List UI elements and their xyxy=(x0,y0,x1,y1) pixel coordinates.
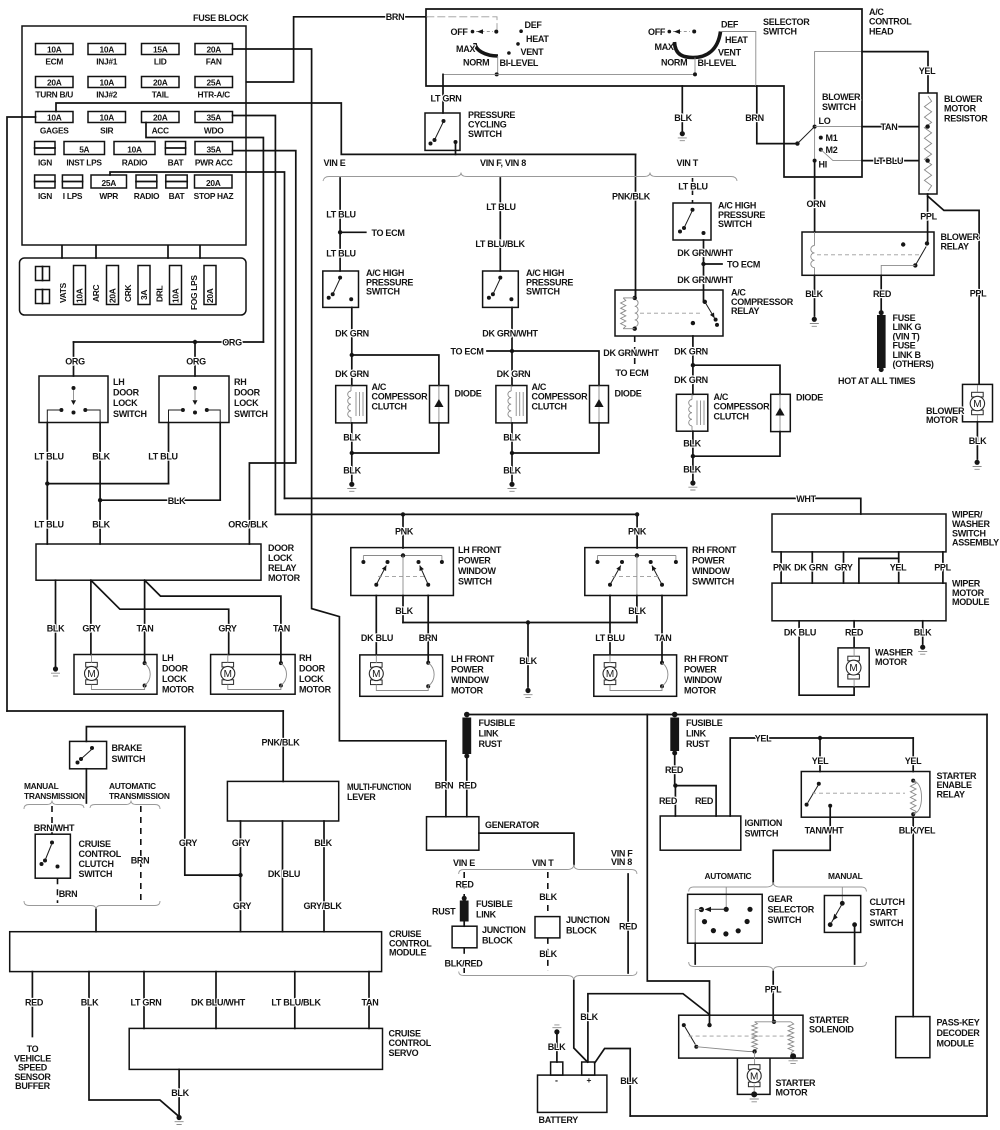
compressor relay coil nodes xyxy=(633,296,637,300)
wire RED cruise module xyxy=(31,972,33,1037)
svg-text:LEVER: LEVER xyxy=(347,792,376,802)
svg-text:DK GRN: DK GRN xyxy=(674,375,708,385)
svg-text:START: START xyxy=(870,908,899,918)
svg-text:HEAT: HEAT xyxy=(526,34,549,44)
wire brake switch to transmission brace xyxy=(85,769,87,803)
starter solenoid coil feeds xyxy=(755,1021,791,1023)
svg-text:BLK: BLK xyxy=(539,892,557,902)
LH door lock switch contacts xyxy=(72,386,76,390)
wire GRY brake to cruise junction xyxy=(185,727,241,876)
svg-text:ORN: ORN xyxy=(806,199,825,209)
wire VIN F RED xyxy=(627,874,629,973)
svg-text:DK GRN/WHT: DK GRN/WHT xyxy=(677,275,733,285)
svg-text:20A: 20A xyxy=(206,178,221,188)
svg-text:20A: 20A xyxy=(153,77,168,87)
svg-text:IGN: IGN xyxy=(38,158,52,168)
wire RED blower relay to fuse link xyxy=(880,275,882,312)
svg-text:DK BLU/WHT: DK BLU/WHT xyxy=(191,998,246,1008)
svg-text:TO ECM: TO ECM xyxy=(451,347,484,357)
wire DK GRN/WHT vin t xyxy=(703,240,705,302)
node GRY junction xyxy=(238,873,242,877)
svg-text:DK GRN: DK GRN xyxy=(794,563,828,573)
LH front power window switch box xyxy=(351,548,454,596)
svg-text:HI: HI xyxy=(819,160,827,170)
wire GAGES right exit to PNK/BLK feed xyxy=(56,103,636,154)
svg-text:M: M xyxy=(372,669,380,680)
RH front power window switch box xyxy=(585,548,687,596)
selector switch 1 VENT contact xyxy=(507,51,511,55)
fuse HTR-A/C 25A xyxy=(195,77,233,88)
RH window switch internal bus xyxy=(598,555,676,557)
A/C compressor clutch 3 box xyxy=(676,394,707,431)
svg-text:STOP HAZ: STOP HAZ xyxy=(194,191,234,201)
wire YEL to starter enable relay left xyxy=(819,738,821,772)
svg-text:POWER: POWER xyxy=(458,556,491,566)
svg-text:LO: LO xyxy=(819,116,831,126)
svg-text:PNK/BLK: PNK/BLK xyxy=(612,192,651,202)
svg-text:GRY: GRY xyxy=(179,838,198,848)
A/C high pressure switch 3 box xyxy=(673,203,711,240)
compressor relay switch xyxy=(703,300,707,304)
svg-text:FAN: FAN xyxy=(206,57,222,67)
svg-text:SWITCH: SWITCH xyxy=(526,287,560,297)
diode 1 symbol xyxy=(438,386,440,423)
svg-text:SIR: SIR xyxy=(100,126,113,136)
svg-text:MOTOR: MOTOR xyxy=(684,686,717,696)
wire FAN exit to long bus xyxy=(233,49,446,741)
svg-text:RADIO: RADIO xyxy=(134,191,160,201)
wire RED fusible link 2 xyxy=(674,753,676,786)
svg-text:BRN: BRN xyxy=(419,633,438,643)
svg-text:VENT: VENT xyxy=(718,48,742,58)
svg-text:BLK: BLK xyxy=(914,628,932,638)
svg-text:TAN: TAN xyxy=(137,624,154,634)
svg-text:TAIL: TAIL xyxy=(152,90,169,100)
svg-text:RELAY: RELAY xyxy=(937,789,965,799)
wire YEL to starter enable relay right xyxy=(912,738,914,772)
node TO ECM vin t xyxy=(701,262,705,266)
A/C compressor clutch 1 coil xyxy=(348,391,351,417)
LH window switch BLK center wire xyxy=(402,556,404,596)
svg-text:LH FRONT: LH FRONT xyxy=(458,545,502,555)
svg-text:BLK: BLK xyxy=(548,1042,566,1052)
wire right rail down xyxy=(986,715,988,1117)
svg-text:FUSIBLE: FUSIBLE xyxy=(479,718,516,728)
gear selector switch box xyxy=(688,894,763,943)
svg-text:CLUTCH: CLUTCH xyxy=(372,401,407,411)
svg-text:SWITCH: SWITCH xyxy=(112,754,146,764)
RH window motor contacts xyxy=(660,661,664,665)
wire DK BLU/WHT cruise xyxy=(215,972,217,1029)
wire ORN blower switch HI to relay xyxy=(814,161,816,232)
svg-text:RADIO: RADIO xyxy=(122,158,148,168)
diode 3 symbol xyxy=(779,394,781,431)
wire PNK/BLK to multi-function lever xyxy=(282,711,284,781)
svg-text:RUST: RUST xyxy=(686,739,710,749)
multi-function lever box xyxy=(227,781,338,821)
node BLK diode return vin f xyxy=(510,451,514,455)
svg-text:WDO: WDO xyxy=(204,126,224,136)
ground vin t branch xyxy=(690,480,695,485)
svg-text:RELAY: RELAY xyxy=(941,242,969,252)
wire GRY to RH door lock motor xyxy=(91,580,229,654)
svg-text:NORM: NORM xyxy=(463,58,489,68)
node LT BLU junction xyxy=(45,481,49,485)
svg-text:LOCK: LOCK xyxy=(234,398,259,408)
selector switch 2 arc MAX to DEF xyxy=(675,32,721,58)
svg-text:M: M xyxy=(973,399,981,410)
compressor relay dashed link xyxy=(640,312,702,314)
wire DK GRN/WHT coil return dashed xyxy=(634,336,636,378)
svg-text:GENERATOR: GENERATOR xyxy=(485,820,540,830)
svg-text:A/C: A/C xyxy=(714,392,729,402)
svg-text:ACC: ACC xyxy=(152,126,169,136)
wire bottom BLK rail xyxy=(630,1115,987,1117)
svg-text:RED: RED xyxy=(873,289,892,299)
wire PNK window feed line xyxy=(275,514,637,548)
wire TAN/WHT to gear brace xyxy=(773,806,830,884)
ground vin f branch xyxy=(509,482,514,487)
svg-text:RH: RH xyxy=(299,653,311,663)
node TO ECM vin f xyxy=(510,349,514,353)
svg-text:LOCK: LOCK xyxy=(299,674,324,684)
svg-text:DEF: DEF xyxy=(721,20,739,30)
svg-text:10A: 10A xyxy=(47,44,62,54)
svg-text:PNK: PNK xyxy=(773,563,792,573)
wire battery hot rail xyxy=(467,714,987,716)
svg-text:BLK: BLK xyxy=(805,289,823,299)
wire manual to clutch start switch xyxy=(841,887,843,903)
svg-text:LT GRN: LT GRN xyxy=(430,94,461,104)
svg-text:25A: 25A xyxy=(207,77,222,87)
svg-text:COMPESSOR: COMPESSOR xyxy=(372,392,429,402)
svg-text:DIODE: DIODE xyxy=(615,389,642,399)
svg-text:DK BLU: DK BLU xyxy=(784,628,816,638)
svg-text:RED: RED xyxy=(455,880,474,890)
wire BLK blower relay to ground xyxy=(814,275,816,316)
wire TAN cruise xyxy=(368,972,370,1029)
svg-text:PNK: PNK xyxy=(395,527,414,537)
brake switch contacts xyxy=(90,746,94,750)
svg-text:JUNCTION: JUNCTION xyxy=(566,915,610,925)
starter motor M symbol xyxy=(748,1065,760,1070)
svg-text:DECODER: DECODER xyxy=(937,1028,981,1038)
svg-text:STARTER: STARTER xyxy=(776,1078,817,1088)
svg-text:DK GRN/WHT: DK GRN/WHT xyxy=(482,329,538,339)
svg-text:HEAD: HEAD xyxy=(869,26,894,36)
svg-text:SELECTOR: SELECTOR xyxy=(768,905,815,915)
A/C control head box xyxy=(426,9,862,177)
svg-text:CONTROL: CONTROL xyxy=(79,849,122,859)
svg-text:SWITCH: SWITCH xyxy=(366,287,400,297)
svg-text:MAX: MAX xyxy=(456,44,475,54)
wire BLK cruise module to ground xyxy=(89,972,178,1116)
battery box xyxy=(538,1075,607,1112)
starter motor ground xyxy=(751,1091,757,1097)
node PNK RH corner xyxy=(635,512,639,516)
wire LT GRN from control head to pressure cycling switch xyxy=(442,74,444,113)
svg-text:WHT: WHT xyxy=(796,494,816,504)
wire TAN to LH door lock motor xyxy=(144,580,146,663)
wire RED fusible link to generator xyxy=(466,756,468,817)
wiper motor module box xyxy=(772,583,946,621)
LH door lock switch box xyxy=(39,376,108,423)
wire ORG to RH door lock switch xyxy=(194,342,196,376)
svg-text:WINDOW: WINDOW xyxy=(684,675,722,685)
blower relay switch contacts xyxy=(925,241,929,245)
svg-text:YEL: YEL xyxy=(812,756,829,766)
svg-text:BLK: BLK xyxy=(969,436,987,446)
wire BLK servo to ground xyxy=(178,1069,180,1114)
fuse INJ#1 10A xyxy=(88,44,126,55)
svg-text:BLK: BLK xyxy=(620,1076,638,1086)
wire BLK LH xyxy=(99,423,101,545)
ground blower relay xyxy=(812,317,817,322)
brake switch box xyxy=(70,741,107,768)
svg-text:FOG LPS: FOG LPS xyxy=(189,275,199,310)
wiper washer switch assembly box xyxy=(772,514,946,552)
cruise clutch switch contacts xyxy=(50,841,54,845)
svg-text:RH FRONT: RH FRONT xyxy=(684,654,729,664)
svg-text:DOOR: DOOR xyxy=(299,664,326,674)
wire GRY lever to module xyxy=(240,821,242,932)
svg-text:I LPS: I LPS xyxy=(63,191,83,201)
wire PNK wiper xyxy=(780,552,782,583)
svg-text:SWITCH: SWITCH xyxy=(822,102,856,112)
wire PNK/BLK into relay coil xyxy=(635,290,637,298)
fuse IGN row5 xyxy=(35,175,55,188)
gear selection brace xyxy=(689,882,867,892)
svg-text:VATS: VATS xyxy=(58,282,68,303)
svg-text:INJ#2: INJ#2 xyxy=(96,90,117,100)
svg-text:SWITCH: SWITCH xyxy=(718,219,752,229)
wire BLK/RED dashed xyxy=(463,948,465,957)
svg-text:M: M xyxy=(750,1071,758,1082)
resistor LT BLU tap xyxy=(925,158,929,162)
wire BLK control head ground xyxy=(681,86,683,131)
svg-text:MOTOR: MOTOR xyxy=(299,685,332,695)
fuse BAT row5 xyxy=(166,175,187,188)
wire ORG feed line xyxy=(74,341,264,343)
svg-text:LOCK: LOCK xyxy=(113,398,138,408)
svg-text:ORG: ORG xyxy=(222,338,242,348)
svg-text:DK GRN: DK GRN xyxy=(335,329,369,339)
svg-text:RED: RED xyxy=(665,765,684,775)
svg-text:LT BLU: LT BLU xyxy=(148,452,178,462)
tabs between fuse boxes xyxy=(61,246,63,259)
wire BLK blower motor xyxy=(976,422,978,459)
RH door lock switch contacts xyxy=(193,386,197,390)
svg-text:BLOCK: BLOCK xyxy=(482,936,513,946)
svg-text:BRN: BRN xyxy=(131,856,150,866)
selector switch 2 DEF to BRN internal line xyxy=(721,32,756,87)
wire BLK door lock relay ground xyxy=(55,580,57,666)
wire TAN RH window xyxy=(661,596,663,664)
svg-text:WASHER: WASHER xyxy=(875,648,914,658)
svg-text:A/C: A/C xyxy=(869,7,884,17)
wire BLK lever to module xyxy=(323,821,325,932)
VIN selection brace xyxy=(323,173,737,182)
ground cruise servo xyxy=(177,1115,182,1120)
LH window motor contacts xyxy=(426,661,430,665)
svg-text:CRK: CRK xyxy=(123,285,133,302)
fuse BAT row4 xyxy=(165,142,185,155)
LH window switch PNK node xyxy=(401,553,405,557)
svg-text:LT BLU: LT BLU xyxy=(486,202,516,212)
svg-text:RUST: RUST xyxy=(432,907,456,917)
selector switch 1 MAX-BI-LEVEL arc xyxy=(475,43,498,56)
wire PPL resistor to blower motor right rail xyxy=(928,196,980,385)
svg-text:BRN/WHT: BRN/WHT xyxy=(34,823,75,833)
LH front power window motor box xyxy=(360,655,443,696)
selector switch 1 DEF contact xyxy=(519,29,523,33)
wire GRY to LH door lock motor xyxy=(90,580,92,654)
svg-text:BRN: BRN xyxy=(745,113,764,123)
svg-text:BLK: BLK xyxy=(92,452,110,462)
svg-text:TAN: TAN xyxy=(362,998,379,1008)
svg-text:VIN 8: VIN 8 xyxy=(611,857,632,867)
fuse I LPS row5 xyxy=(62,175,82,188)
svg-text:M2: M2 xyxy=(826,145,838,155)
wire RED rail to starter solenoid xyxy=(647,715,709,1016)
wire WPR exit to WHT wiper feed xyxy=(110,172,285,498)
wire LT BLU to blower motor resistor xyxy=(862,160,928,162)
LH window motor M symbol xyxy=(371,663,383,668)
node window BLK ground junction xyxy=(526,620,530,624)
svg-text:DK BLU: DK BLU xyxy=(268,869,300,879)
fuse ACC 20A xyxy=(142,112,180,123)
svg-text:A/C: A/C xyxy=(372,382,387,392)
svg-text:MAX: MAX xyxy=(655,42,674,52)
fuse RADIO row5 xyxy=(136,175,157,188)
junction block 2 box xyxy=(535,917,560,938)
svg-text:LOCK: LOCK xyxy=(268,553,293,563)
svg-text:ASSEMBLY: ASSEMBLY xyxy=(952,538,999,548)
wire WDO exit to PNK window feed xyxy=(233,116,276,515)
wire BRN control head to blower switch xyxy=(757,86,798,144)
compressor relay coil resistor xyxy=(621,298,626,329)
wire BRN/WHT dashed xyxy=(51,806,53,834)
svg-text:VENT: VENT xyxy=(521,47,545,57)
fuse PWR ACC 35A xyxy=(195,142,233,155)
wire junction brace to battery positive xyxy=(574,981,588,1063)
svg-text:TO ECM: TO ECM xyxy=(372,228,405,238)
ground control head BLK xyxy=(680,131,685,136)
starter enable relay switch xyxy=(817,782,821,786)
svg-text:PPL: PPL xyxy=(970,289,987,299)
wire PWR ACC exit to ORG/BLK feed xyxy=(233,151,296,544)
gear selector output link xyxy=(695,910,701,944)
LH window switch contacts xyxy=(361,560,365,564)
RH door lock motor contacts xyxy=(279,661,283,665)
svg-text:DK BLU: DK BLU xyxy=(361,633,393,643)
svg-text:CLUTCH: CLUTCH xyxy=(714,411,749,421)
svg-text:CONTROL: CONTROL xyxy=(869,17,912,27)
cruise control module box xyxy=(10,932,382,972)
RH window switch contacts xyxy=(596,560,600,564)
svg-text:CLUTCH: CLUTCH xyxy=(532,401,567,411)
wire GAGES left exit to left bus xyxy=(7,117,36,711)
ground battery negative lead xyxy=(554,1029,559,1034)
ground wiper module xyxy=(920,645,925,650)
svg-text:BLK/YEL: BLK/YEL xyxy=(899,826,936,836)
manual transmission brace xyxy=(24,801,84,810)
A/C compressor clutch 3 coil xyxy=(689,400,692,426)
node BLK junction xyxy=(98,498,102,502)
svg-text:SWITCH: SWITCH xyxy=(763,27,797,37)
svg-text:FUSIBLE: FUSIBLE xyxy=(476,899,513,909)
svg-text:M1: M1 xyxy=(826,133,838,143)
svg-text:LID: LID xyxy=(154,57,167,67)
svg-text:BLOWER: BLOWER xyxy=(941,232,980,242)
wire YEL wiper jog xyxy=(898,552,900,583)
svg-text:MANUAL: MANUAL xyxy=(24,781,59,791)
svg-text:3A: 3A xyxy=(139,290,149,300)
LH door lock motor M symbol xyxy=(86,662,98,667)
wire BRN dashed automatic xyxy=(140,806,142,903)
generator box xyxy=(427,817,479,851)
svg-text:GRY: GRY xyxy=(233,901,252,911)
wire LT BLU/BLK cruise xyxy=(294,972,296,1029)
A/C compressor clutch 2 box xyxy=(496,386,527,423)
wire BRN dashed below clutch switch xyxy=(57,878,59,903)
node TO ECM vin e xyxy=(338,230,342,234)
A/C high pressure switch 2 box xyxy=(483,271,519,307)
blower switch M2 contact xyxy=(819,148,823,152)
fuse LID 15A xyxy=(142,44,180,55)
fuse FAN 20A xyxy=(195,44,233,55)
svg-text:BI-LEVEL: BI-LEVEL xyxy=(698,58,737,68)
LH window switch internal bus xyxy=(363,555,442,557)
wire DK GRN/WHT vin f xyxy=(511,307,513,385)
svg-text:TAN/WHT: TAN/WHT xyxy=(805,826,845,836)
node ORG junction xyxy=(193,340,197,344)
svg-text:PPL: PPL xyxy=(920,212,937,222)
ground door lock relay xyxy=(53,666,58,671)
fuse GAGES 10A xyxy=(36,112,74,123)
blower switch M1 contact xyxy=(819,136,823,140)
compressor relay coil xyxy=(635,300,638,327)
svg-text:BLK: BLK xyxy=(503,466,521,476)
svg-text:ECM: ECM xyxy=(45,57,63,67)
blower motor resistor element xyxy=(924,96,931,191)
svg-text:BLK: BLK xyxy=(628,606,646,616)
svg-text:GEAR: GEAR xyxy=(768,894,794,904)
svg-text:PASS-KEY: PASS-KEY xyxy=(937,1018,980,1028)
svg-text:BLK: BLK xyxy=(539,949,557,959)
svg-text:DRL: DRL xyxy=(155,286,165,302)
A/C compressor clutch 2 coil xyxy=(508,391,511,417)
svg-text:BLK: BLK xyxy=(519,656,537,666)
svg-text:CONTROL: CONTROL xyxy=(389,1038,432,1048)
svg-text:CRUISE: CRUISE xyxy=(389,1029,422,1039)
svg-text:BI-LEVEL: BI-LEVEL xyxy=(500,58,539,68)
svg-text:LT BLU: LT BLU xyxy=(678,182,708,192)
svg-text:35A: 35A xyxy=(207,144,222,154)
wire DK BLU wiper motor loop xyxy=(799,621,854,695)
blower switch LO to TAN line xyxy=(815,126,862,128)
svg-text:25A: 25A xyxy=(102,178,117,188)
node BLK diode return vin t xyxy=(691,454,695,458)
svg-text:RED: RED xyxy=(845,628,864,638)
svg-text:BATTERY: BATTERY xyxy=(539,1115,579,1125)
svg-text:LINK: LINK xyxy=(686,729,707,739)
svg-text:LH: LH xyxy=(113,377,124,387)
svg-text:LH: LH xyxy=(162,653,173,663)
svg-text:PWR ACC: PWR ACC xyxy=(195,158,233,168)
clutch start switch box xyxy=(824,896,860,933)
svg-text:DIODE: DIODE xyxy=(455,389,482,399)
